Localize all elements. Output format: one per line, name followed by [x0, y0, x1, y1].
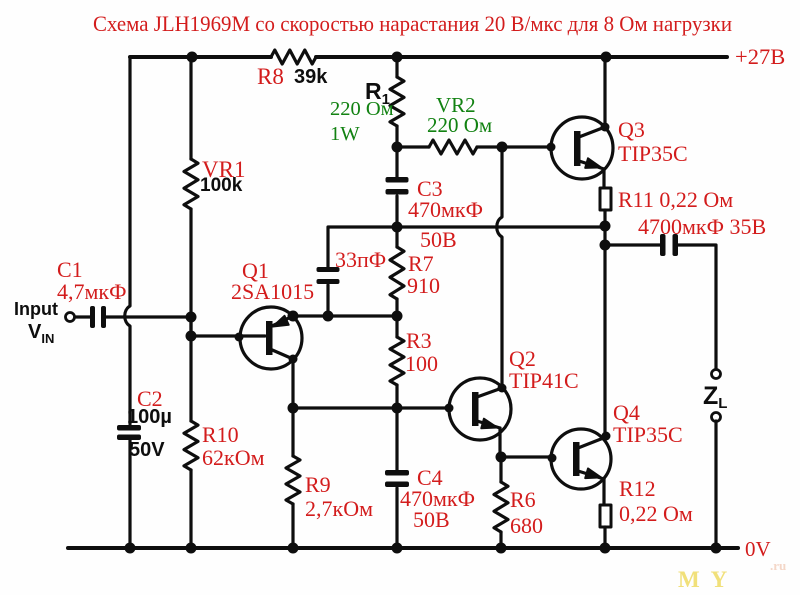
node: bottom rail junction R12 — [600, 543, 611, 554]
wire R3 leads — [395, 316, 398, 408]
node: Q2 emitter / R6 junction — [496, 452, 507, 463]
svg-text:0,22 Ом: 0,22 Ом — [619, 501, 693, 526]
svg-text:33пФ: 33пФ — [335, 247, 386, 272]
resistor R11 — [600, 188, 611, 210]
wire bottom rail 0V — [68, 546, 738, 550]
node: R11 / feedback row junction — [600, 221, 611, 232]
node: Q1 collector / R9 / R3 row junction — [288, 403, 299, 414]
node: Q2 collector bend — [498, 384, 507, 393]
resistor R8 — [271, 50, 316, 64]
wire VR1/R10 column — [189, 57, 192, 548]
wire ZL to bottom rail — [714, 421, 717, 548]
capacitor C4 — [385, 470, 409, 487]
node: R7 / R3 / emitter rail junction — [392, 311, 403, 322]
svg-text:100: 100 — [405, 351, 438, 376]
svg-text:100µ: 100µ — [127, 406, 172, 428]
svg-text:R12: R12 — [619, 476, 656, 501]
transistor Q4 TIP35C — [551, 429, 611, 489]
transistor Q3 TIP35C — [551, 117, 613, 179]
svg-text:220 Ом: 220 Ом — [330, 98, 394, 120]
resistor R6 — [494, 482, 508, 532]
wire Q3 emitter to R11 — [602, 169, 605, 188]
potentiometer VR1 — [184, 159, 198, 209]
svg-text:4,7мкФ: 4,7мкФ — [57, 279, 127, 304]
svg-text:100k: 100k — [200, 175, 243, 196]
wire Q3 collector to rail — [603, 57, 606, 127]
terminal ZL bottom — [712, 413, 721, 422]
wire Q2 emitter down — [498, 428, 501, 457]
node: bottom rail junction ZL — [711, 543, 722, 554]
svg-text:.ru: .ru — [770, 558, 786, 573]
node: bottom rail junction R6 — [496, 543, 507, 554]
svg-text:50V: 50V — [129, 439, 165, 461]
node: 33pF branch junction — [323, 311, 334, 322]
node: top rail junction Q3 collector — [601, 52, 612, 63]
node: Q3 collector bend — [601, 123, 610, 132]
node: input / VR1 junction — [186, 312, 197, 323]
resistor R9 — [286, 456, 300, 504]
resistor R3 — [390, 337, 404, 385]
capacitor C3 — [386, 177, 409, 195]
wire Q2 collector column with hop — [497, 147, 502, 388]
node: C3 / R7 junction — [392, 222, 403, 233]
node: R1 / VR2 / C3 junction — [392, 142, 403, 153]
wire C3 leads — [395, 147, 398, 227]
svg-text:Input: Input — [14, 299, 58, 319]
node: Q4 collector bend — [602, 432, 611, 441]
capacitor C1 — [90, 306, 106, 328]
node: Q3 base circle contact — [547, 143, 556, 152]
svg-text:R9: R9 — [305, 472, 331, 497]
wire Q1 collector down — [291, 359, 294, 408]
node: Q2 base circle contact — [445, 404, 454, 413]
node: bottom rail junction R10 — [186, 543, 197, 554]
svg-text:R10: R10 — [202, 422, 239, 447]
wire left rail with hop over input wire — [125, 57, 130, 424]
capacitor 33pF — [317, 267, 340, 284]
wire R9 leads — [291, 408, 294, 548]
svg-text:R11 0,22 Ом: R11 0,22 Ом — [618, 187, 733, 212]
svg-text:Схема JLH1969M со скоростью на: Схема JLH1969M со скоростью нарастания 2… — [93, 11, 732, 36]
svg-text:TIP35C: TIP35C — [613, 422, 683, 447]
svg-text:62кОм: 62кОм — [202, 445, 265, 470]
node: top rail junction R1 — [392, 52, 403, 63]
svg-text:TIP41C: TIP41C — [509, 368, 579, 393]
terminal ZL top — [712, 370, 721, 379]
wire output node to cap 4700uF — [605, 243, 660, 246]
svg-text:Q3: Q3 — [618, 117, 645, 142]
node: Q4 base circle contact — [548, 454, 557, 463]
resistor R12 — [600, 505, 611, 527]
wire collector row y=408 — [293, 406, 449, 409]
transistor Q2 TIP41C — [449, 378, 511, 440]
svg-text:910: 910 — [407, 273, 440, 298]
capacitor C2 — [117, 425, 141, 440]
node: Q1 collector circle contact — [289, 355, 298, 364]
svg-text:680: 680 — [510, 513, 543, 538]
potentiometer VR2 — [429, 140, 477, 154]
svg-text:4700мкФ 35В: 4700мкФ 35В — [638, 214, 766, 239]
wire top rail +27V — [130, 55, 727, 59]
input terminal — [66, 313, 75, 322]
svg-text:R6: R6 — [510, 487, 536, 512]
transistor Q1 2SA1015 — [240, 307, 302, 369]
wire C2 to bottom rail — [128, 439, 131, 548]
node: R3 / C4 junction — [392, 403, 403, 414]
svg-text:470мкФ: 470мкФ — [408, 197, 483, 222]
node: bottom rail junction R9 — [288, 543, 299, 554]
capacitor 4700uF — [660, 234, 678, 256]
wire node to Q1 base — [191, 317, 265, 336]
node: Q1 emitter junction — [288, 311, 299, 322]
svg-text:2SA1015: 2SA1015 — [231, 279, 314, 304]
svg-text:R3: R3 — [406, 328, 432, 353]
node: VR2 / Q2 collector junction — [497, 142, 508, 153]
wire input to C1 — [75, 315, 91, 318]
wire R6 leads — [499, 457, 502, 548]
svg-text:ZL: ZL — [703, 382, 727, 412]
wire R7 leads — [395, 227, 398, 316]
node: Q1 base circle contact — [235, 333, 244, 342]
svg-text:50В: 50В — [413, 507, 450, 532]
resistor R1 — [390, 77, 404, 126]
wire cap to ZL — [678, 245, 716, 369]
wire C1 to node — [106, 315, 191, 318]
wire Q4 emitter to R12 — [602, 479, 605, 505]
svg-text:39k: 39k — [294, 66, 328, 88]
svg-text:M Y: M Y — [678, 567, 730, 592]
wire C4 leads — [395, 408, 398, 548]
svg-text:220 Ом: 220 Ом — [427, 113, 492, 137]
node: top rail junction VR1 — [187, 52, 198, 63]
svg-text:2,7кОм: 2,7кОм — [305, 496, 373, 521]
wire R12 to bottom rail — [603, 527, 606, 548]
wire Q1 emitter rail — [293, 314, 397, 317]
svg-text:VIN: VIN — [28, 321, 54, 346]
resistor R10 — [184, 421, 198, 470]
wire VR2 row — [397, 145, 551, 148]
wire y=227 row to R11 node — [397, 225, 605, 228]
svg-text:TIP35C: TIP35C — [618, 141, 688, 166]
node: output junction — [600, 240, 611, 251]
resistor R7 — [390, 247, 404, 299]
wire Q2 emitter to Q4 base — [501, 455, 552, 458]
svg-text:1W: 1W — [330, 123, 360, 145]
svg-text:R8: R8 — [257, 64, 284, 89]
node: Q1 base junction — [186, 331, 197, 342]
svg-text:50В: 50В — [420, 227, 457, 252]
wire R1 column top — [395, 57, 398, 147]
wire 33pF branch — [328, 227, 397, 316]
svg-text:+27В: +27В — [735, 44, 785, 69]
wire R11 to Q4 collector — [603, 210, 606, 436]
node: bottom rail junction C2 — [125, 543, 136, 554]
svg-text:0V: 0V — [745, 537, 771, 561]
node: bottom rail junction C4 — [392, 543, 403, 554]
